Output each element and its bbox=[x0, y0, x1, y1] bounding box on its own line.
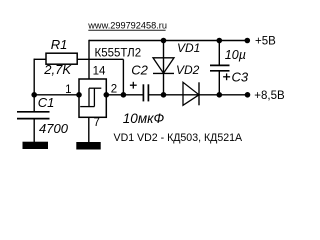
wire: feedback drop to pin 2 node bbox=[122, 59, 124, 95]
wire: pin 1 input lead bbox=[34, 94, 79, 96]
svg-text:C2: C2 bbox=[131, 62, 148, 77]
node: C3 bottom junction bbox=[217, 92, 223, 98]
capacitor C1 plates bbox=[17, 112, 50, 119]
node: junction R1/C1/pin1 bbox=[31, 92, 37, 98]
svg-text:1: 1 bbox=[65, 84, 71, 96]
label + (C2 polarity) bbox=[130, 82, 137, 89]
IC U1 К555ТЛ2 box bbox=[79, 79, 106, 117]
terminal +5В bbox=[245, 38, 251, 44]
svg-text:7: 7 bbox=[94, 117, 100, 129]
svg-text:VD1 VD2 - КД503, КД521А: VD1 VD2 - КД503, КД521А bbox=[114, 132, 244, 144]
wire: R1 left lead bbox=[34, 58, 46, 60]
svg-text:+8,5В: +8,5В bbox=[254, 90, 285, 102]
ground bar (C1) bbox=[23, 142, 49, 149]
wire: C2 right to +8,5V terminal rail bbox=[148, 94, 247, 96]
label + (C3 polarity) bbox=[223, 73, 230, 80]
node: junction feedback / C2 left bbox=[121, 92, 127, 98]
watermark URL www.299792458.ru bbox=[87, 20, 167, 30]
svg-text:+5В: +5В bbox=[255, 35, 276, 47]
node: C3 top junction bbox=[217, 38, 223, 44]
wire: pin 2 output to C2 bbox=[106, 94, 143, 96]
svg-text:www.299792458.ru: www.299792458.ru bbox=[87, 20, 167, 30]
diode VD2 (horizontal, inline) bbox=[183, 82, 199, 105]
svg-text:VD1: VD1 bbox=[177, 41, 200, 55]
wire: pin 14 supply drop from rail bbox=[88, 40, 90, 79]
schmitt trigger hysteresis symbol bbox=[80, 88, 101, 106]
wire: R1 right lead across to feedback corner bbox=[77, 58, 123, 60]
svg-text:14: 14 bbox=[93, 66, 106, 78]
node: pin 2 dot on box edge bbox=[104, 92, 110, 98]
capacitor C3 vertical leads bbox=[218, 41, 220, 95]
svg-text:4700: 4700 bbox=[39, 121, 69, 136]
capacitor C1 bottom lead bbox=[33, 119, 35, 142]
capacitor C1 top lead bbox=[33, 95, 35, 112]
svg-text:2: 2 bbox=[111, 84, 117, 96]
resistor R1 body bbox=[46, 53, 77, 64]
svg-text:10µ: 10µ bbox=[225, 48, 246, 62]
node: VD1 cathode junction bbox=[161, 92, 167, 98]
node: VD1 anode junction on +5V rail bbox=[161, 38, 167, 44]
wire: +5V top rail bbox=[89, 40, 247, 42]
diode VD1 (vertical) bbox=[153, 41, 174, 95]
svg-text:R1: R1 bbox=[51, 37, 68, 52]
terminal +8,5В bbox=[245, 92, 251, 98]
svg-text:VD2: VD2 bbox=[176, 63, 200, 77]
ground bar (pin 7) bbox=[76, 142, 100, 150]
svg-text:К555ТЛ2: К555ТЛ2 bbox=[95, 48, 142, 60]
svg-text:C1: C1 bbox=[38, 95, 55, 110]
node: pin 1 dot on box edge bbox=[76, 92, 82, 98]
capacitor C2 plates bbox=[143, 84, 148, 101]
svg-text:C3: C3 bbox=[232, 70, 249, 85]
svg-text:10мкФ: 10мкФ bbox=[123, 111, 165, 126]
svg-text:2,7K: 2,7K bbox=[43, 62, 72, 77]
wire: node A vertical (R1 left to C1 top) bbox=[33, 59, 35, 95]
wire: pin 7 to ground bbox=[88, 117, 90, 142]
capacitor C3 plates bbox=[210, 65, 230, 70]
